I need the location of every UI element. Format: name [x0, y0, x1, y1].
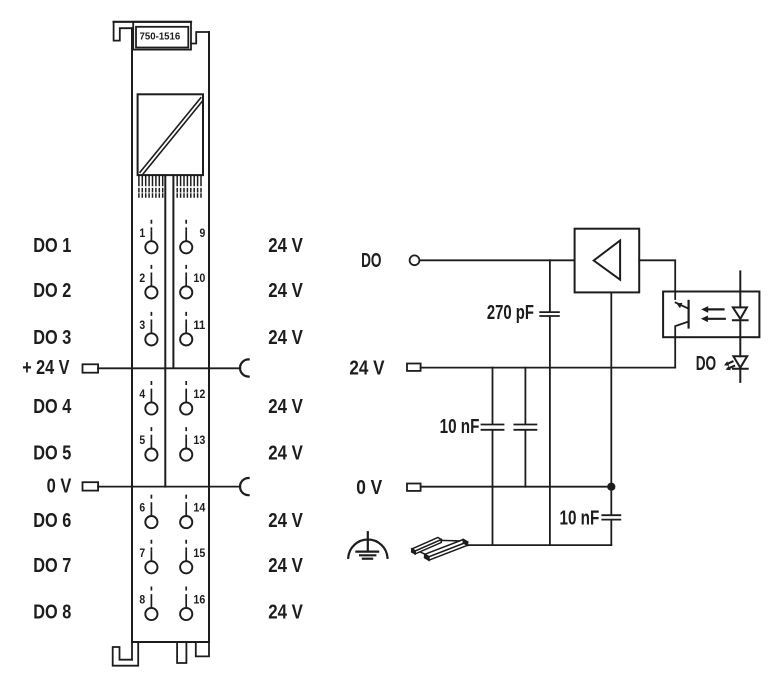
module bottom edge — [132, 641, 209, 643]
+24V feed wire — [98, 367, 240, 369]
svg-text:24 V: 24 V — [268, 555, 303, 577]
svg-text:DO 3: DO 3 — [33, 327, 71, 349]
buffer triangle — [594, 241, 620, 280]
internal bus wire 24V (right) — [172, 175, 174, 368]
opto LED wire through to indicator — [739, 320, 741, 356]
0V feed wire — [98, 486, 240, 488]
svg-text:6: 6 — [139, 501, 145, 515]
contact 9 stub — [185, 220, 187, 231]
label plate inner frame — [136, 27, 188, 48]
electronics box diagonal double line — [140, 98, 201, 173]
capacitor C2 10nF plates — [482, 424, 504, 426]
24V terminal square (circuit) — [407, 364, 421, 371]
svg-text:15: 15 — [193, 546, 205, 560]
pin dashes right — [177, 189, 201, 197]
svg-text:24 V: 24 V — [268, 280, 303, 302]
opto LED triangle — [733, 307, 747, 318]
svg-text:24 V: 24 V — [268, 396, 303, 418]
contact 5 — [145, 449, 157, 461]
svg-text:10 nF: 10 nF — [440, 416, 480, 438]
svg-text:24 V: 24 V — [349, 357, 385, 379]
svg-text:1: 1 — [139, 226, 145, 240]
contact 1 — [145, 241, 157, 253]
svg-text:12: 12 — [193, 387, 205, 401]
contact 16 — [180, 608, 192, 620]
module body left edge — [131, 28, 133, 642]
svg-text:0 V: 0 V — [47, 475, 72, 497]
capacitor C3 10nF wire — [524, 368, 526, 424]
svg-text:DO 6: DO 6 — [33, 510, 71, 532]
svg-text:DO: DO — [361, 250, 381, 272]
svg-text:DO: DO — [696, 353, 716, 375]
contact 10 stub — [185, 265, 187, 276]
capacitor C3 10nF plates — [514, 424, 536, 426]
svg-text:DO 2: DO 2 — [33, 280, 71, 302]
svg-text:9: 9 — [200, 226, 206, 240]
contact 5 stub — [150, 427, 152, 438]
svg-text:8: 8 — [139, 593, 145, 607]
contact 7 — [145, 561, 157, 573]
contact 1 stub — [150, 220, 152, 231]
capacitor C4 10nF plates — [602, 514, 620, 516]
bottom middle foot — [177, 642, 186, 663]
contact 4 stub — [150, 381, 152, 392]
svg-text:+ 24 V: + 24 V — [22, 357, 70, 379]
svg-text:2: 2 — [139, 271, 145, 285]
svg-text:24 V: 24 V — [268, 442, 303, 464]
contact stub lines (dash-dot above each circle) — [151, 220, 186, 608]
pin dashes left — [139, 189, 163, 197]
photon arrow upper — [708, 308, 724, 310]
contact 15 — [180, 561, 192, 573]
contact 3 — [145, 333, 157, 345]
circuit labels — [349, 250, 716, 529]
indicator LED cathode bar — [733, 368, 748, 370]
0V terminal square — [83, 482, 99, 490]
0V pass contact arc — [240, 478, 249, 495]
contact 6 stub — [150, 495, 152, 506]
contact 8 — [145, 608, 157, 620]
LED lightning symbol arrow 1 — [728, 362, 732, 364]
pins left group — [139, 175, 163, 185]
bottom-left foot hook — [113, 642, 139, 666]
optocoupler box — [663, 292, 759, 338]
DIN rail symbol — [412, 538, 468, 561]
svg-text:24 V: 24 V — [268, 602, 303, 624]
contact 11 — [180, 333, 192, 345]
contact numbers — [139, 226, 205, 607]
module top flange bar — [114, 21, 191, 23]
indicator LED bottom stub — [739, 369, 741, 382]
contact 2 — [145, 286, 157, 298]
DO input terminal circle — [410, 255, 420, 265]
24V rail — [421, 367, 676, 369]
svg-text:5: 5 — [139, 433, 145, 447]
+24V terminal square — [83, 364, 99, 372]
internal bus wire 0V (left) — [164, 175, 166, 487]
svg-text:750-1516: 750-1516 — [140, 32, 181, 43]
contact 10 — [180, 286, 192, 298]
left terminal labels — [22, 235, 72, 624]
contact 9 — [180, 241, 192, 253]
svg-text:24 V: 24 V — [268, 327, 303, 349]
svg-text:13: 13 — [193, 433, 205, 447]
label plate outer frame — [133, 22, 191, 50]
right 24V labels — [268, 235, 303, 624]
svg-text:24 V: 24 V — [268, 235, 303, 257]
contact 8 stub — [150, 587, 152, 598]
bottom right foot — [196, 642, 209, 656]
capacitor C2 10nF wire — [492, 368, 494, 424]
contact 16 stub — [185, 587, 187, 598]
opto LED wire upper stub — [739, 271, 741, 307]
contact 12 stub — [185, 381, 187, 392]
pins right group — [177, 175, 201, 185]
svg-text:DO 7: DO 7 — [33, 555, 71, 577]
0V terminal square (circuit) — [407, 484, 421, 491]
svg-text:14: 14 — [193, 501, 205, 515]
svg-text:10 nF: 10 nF — [560, 508, 600, 530]
buffer box U2 — [575, 229, 640, 293]
buffer ground wire — [610, 292, 612, 514]
module body right edge — [208, 32, 210, 642]
svg-text:270 pF: 270 pF — [487, 302, 534, 324]
capacitor C1 270pF plates — [540, 311, 559, 313]
svg-text:DO 5: DO 5 — [33, 442, 71, 464]
+24V pass contact arc — [240, 359, 249, 376]
indicator LED triangle — [733, 356, 747, 367]
contact 2 stub — [150, 265, 152, 276]
contact 7 stub — [150, 540, 152, 551]
contact 14 stub — [185, 495, 187, 506]
svg-text:11: 11 — [193, 318, 205, 332]
LED lightning symbol arrow 2 — [730, 366, 734, 368]
junction dot — [607, 483, 615, 491]
contact 3 stub — [150, 312, 152, 323]
svg-text:7: 7 — [139, 546, 145, 560]
svg-text:DO 8: DO 8 — [33, 602, 71, 624]
buffer output wire — [639, 260, 675, 299]
svg-text:DO 4: DO 4 — [33, 396, 72, 418]
svg-text:24 V: 24 V — [268, 510, 303, 532]
module top-left hook — [114, 22, 132, 41]
functional earth symbol — [348, 540, 387, 558]
contact 11 stub — [185, 312, 187, 323]
contact 13 — [180, 449, 192, 461]
electronics box U1 — [138, 94, 203, 175]
opto LED cathode bar — [733, 319, 748, 321]
svg-text:10: 10 — [193, 271, 205, 285]
svg-text:3: 3 — [139, 318, 145, 332]
contact 15 stub — [185, 540, 187, 551]
photon arrow lower — [707, 318, 725, 320]
svg-text:16: 16 — [193, 593, 205, 607]
0V rail — [421, 486, 612, 488]
contact 6 — [145, 516, 157, 528]
contact 13 stub — [185, 427, 187, 438]
contact 4 — [145, 402, 157, 414]
svg-text:4: 4 — [139, 387, 145, 401]
phototransistor collector slant with arrow — [676, 303, 689, 309]
contact rows — [145, 241, 192, 620]
phototransistor emitter slant — [675, 322, 688, 368]
contact 14 — [180, 516, 192, 528]
svg-text:DO 1: DO 1 — [33, 235, 71, 257]
svg-text:0 V: 0 V — [356, 477, 383, 499]
DO input wire — [419, 259, 574, 261]
earth bottom wire — [468, 544, 611, 546]
capacitor C1 270pF wire — [549, 260, 551, 311]
module top-right step — [191, 32, 209, 44]
phototransistor base bar — [687, 301, 689, 328]
contact 12 — [180, 402, 192, 414]
